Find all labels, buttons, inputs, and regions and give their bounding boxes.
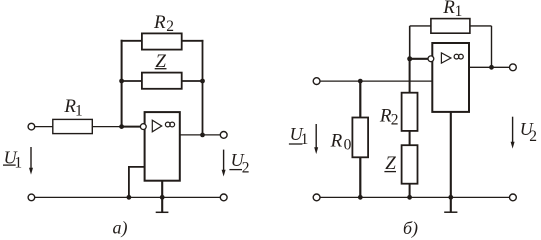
wire R1 to node — [92, 126, 121, 128]
junction dot output — [200, 133, 205, 138]
resistor R1 — [53, 119, 93, 133]
resistor R0 — [352, 118, 368, 158]
svg-text:2: 2 — [529, 128, 537, 145]
svg-text:R: R — [153, 12, 166, 33]
svg-text:R: R — [442, 0, 455, 18]
wire R1 left b — [410, 25, 431, 27]
op-amp U1 box — [145, 112, 180, 181]
svg-text:2: 2 — [391, 112, 399, 129]
arrow U1 b — [315, 124, 317, 150]
wire input to R1 — [35, 126, 53, 128]
op-amp triangle b — [441, 53, 451, 63]
op-amp infinity symbol b — [454, 54, 459, 59]
junction dot Z right — [200, 79, 205, 84]
op-amp triangle — [152, 120, 161, 132]
output wire a — [180, 134, 220, 136]
resistor R2 b — [402, 93, 418, 131]
ground wire b — [450, 112, 452, 212]
junction dot output b — [489, 65, 494, 70]
input wire b — [320, 80, 432, 82]
wire Z to rail — [409, 184, 411, 198]
output terminal a — [220, 132, 227, 139]
feedback vertical wire right — [202, 40, 204, 135]
bottom left terminal b — [313, 194, 320, 201]
impedance Z — [142, 73, 182, 89]
junction dot ground b — [448, 195, 453, 200]
bottom rail a — [35, 196, 220, 198]
output wire b — [469, 66, 509, 68]
resistor R1 b — [431, 19, 470, 34]
ground wire a — [161, 181, 163, 213]
bottom left terminal a — [28, 194, 35, 201]
svg-text:б): б) — [403, 218, 418, 238]
feedback vertical right b — [491, 26, 493, 67]
wire to Z left — [121, 80, 142, 82]
wire R0 to rail — [359, 157, 361, 197]
op-amp inverting input circle — [140, 124, 146, 130]
svg-text:1: 1 — [301, 131, 309, 148]
arrow U1 a — [30, 147, 32, 170]
svg-text:R: R — [330, 131, 343, 152]
wire node to op-amp input circle — [122, 126, 141, 128]
non-inverting input wire — [129, 167, 145, 197]
svg-text:0: 0 — [344, 137, 352, 154]
impedance Z b — [402, 145, 418, 184]
feedback vertical left b — [409, 26, 411, 59]
op-amp inverting input circle b — [428, 56, 434, 62]
wire to R2 left — [121, 40, 142, 42]
feedback vertical wire left — [121, 40, 123, 127]
junction dot non-inv — [126, 195, 131, 200]
junction dot R0 top — [358, 79, 363, 84]
input terminal b — [313, 78, 320, 85]
svg-text:2: 2 — [242, 160, 250, 177]
junction dot R0 bottom — [358, 195, 363, 200]
bottom right terminal a — [220, 194, 227, 201]
wire node down to R2 — [409, 59, 411, 93]
resistor R2 — [142, 33, 182, 49]
svg-text:2: 2 — [166, 18, 174, 35]
svg-text:1: 1 — [75, 103, 83, 120]
bottom right terminal b — [510, 194, 517, 201]
wire node to op-amp circle b — [410, 58, 428, 60]
wire to R0 — [359, 81, 361, 117]
input terminal a — [28, 123, 35, 130]
wire R2 right — [182, 40, 204, 42]
bottom rail b — [320, 196, 509, 198]
node dot (inverting input node) — [119, 124, 124, 129]
junction dot Z bottom b — [407, 195, 412, 200]
output terminal b — [510, 64, 517, 71]
wire R1 right b — [470, 25, 492, 27]
arrow U2 a — [223, 150, 225, 172]
wire Z right — [182, 80, 204, 82]
inverting node dot b — [407, 56, 412, 61]
junction dot ground a — [160, 195, 165, 200]
ground bar b — [444, 211, 457, 213]
svg-text:1: 1 — [14, 154, 22, 171]
svg-text:1: 1 — [455, 3, 463, 20]
ground bar a — [156, 211, 169, 213]
svg-text:а): а) — [113, 218, 128, 239]
arrow U2 b — [512, 117, 514, 144]
wire R2 to Z — [409, 131, 411, 145]
op-amp infinity symbol — [165, 122, 170, 127]
op-amp U2 box — [432, 43, 469, 112]
junction dot Z left — [119, 79, 124, 84]
